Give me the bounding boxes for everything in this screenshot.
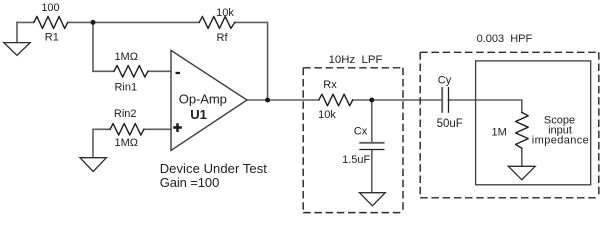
svg-text:1.5uF: 1.5uF <box>342 154 370 166</box>
svg-text:Cx: Cx <box>354 125 368 137</box>
svg-text:Rin1: Rin1 <box>114 81 137 93</box>
svg-text:10k: 10k <box>216 7 234 19</box>
svg-text:Rin2: Rin2 <box>114 108 137 120</box>
svg-text:1MΩ: 1MΩ <box>114 51 138 63</box>
svg-text:Device Under Test: Device Under Test <box>160 161 268 176</box>
svg-text:impedance: impedance <box>532 134 589 146</box>
svg-text:1MΩ: 1MΩ <box>115 137 139 149</box>
svg-text:Cy: Cy <box>438 74 452 86</box>
svg-text:Op-Amp: Op-Amp <box>179 91 227 106</box>
svg-text:100: 100 <box>41 2 59 14</box>
svg-text:Gain =100: Gain =100 <box>160 175 220 190</box>
svg-text:R1: R1 <box>45 32 59 44</box>
svg-text:Rx: Rx <box>323 79 337 91</box>
svg-text:10k: 10k <box>318 109 336 121</box>
svg-text:50uF: 50uF <box>437 118 463 130</box>
svg-text:Rf: Rf <box>217 32 229 44</box>
svg-text:10Hz LPF: 10Hz LPF <box>329 54 383 66</box>
svg-text:0.003 HPF: 0.003 HPF <box>477 33 533 45</box>
svg-text:1M: 1M <box>492 126 507 138</box>
svg-text:U1: U1 <box>190 107 207 122</box>
